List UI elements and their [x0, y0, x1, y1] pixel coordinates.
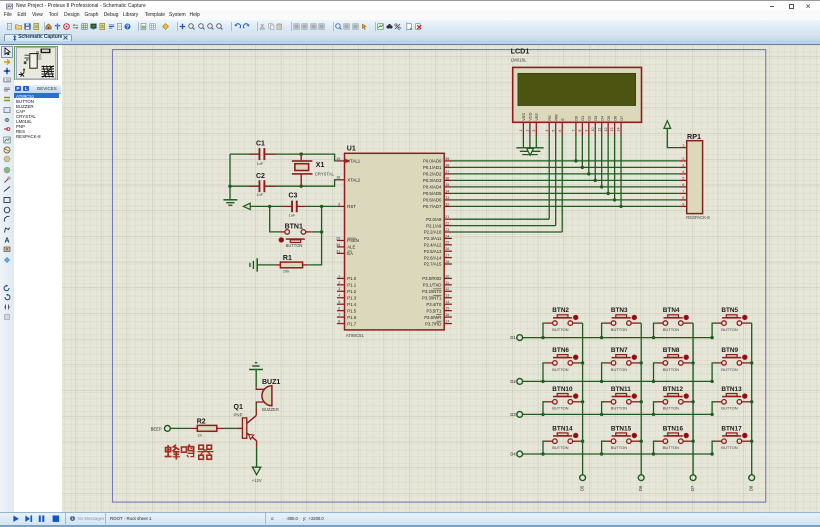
button BTN4	[654, 307, 694, 337]
button BTN1	[279, 223, 312, 248]
crystal X1	[292, 154, 335, 186]
pin 30 ALE	[336, 243, 355, 250]
svg-text:7: 7	[338, 313, 340, 317]
svg-text:BTN10: BTN10	[552, 386, 573, 393]
svg-text:BEEP: BEEP	[151, 426, 162, 431]
svg-text:2: 2	[682, 157, 684, 161]
svg-text:P2.5/A13: P2.5/A13	[424, 249, 442, 254]
svg-text:P2.7/A15: P2.7/A15	[424, 262, 442, 267]
wire LCD D1 drop	[581, 135, 583, 167]
capacitor C2	[249, 173, 276, 197]
svg-text:C2: C2	[256, 173, 265, 180]
svg-text:?: ?	[125, 24, 128, 30]
node D6 terminal	[638, 475, 644, 491]
pin 6 P1.5	[337, 307, 357, 314]
wire row D1	[523, 336, 714, 339]
pin 7 P1.6	[337, 313, 357, 320]
svg-text:P3.3/INT1: P3.3/INT1	[422, 295, 442, 300]
svg-text:P3.5/T1: P3.5/T1	[426, 308, 442, 313]
svg-text:BTN2: BTN2	[552, 307, 569, 314]
pin 29 PSEN	[336, 236, 359, 243]
node D2 terminal	[510, 379, 522, 385]
button BTN13	[712, 386, 752, 415]
wire Q1 collector to buzzer	[256, 402, 264, 415]
pin 3 P1.2	[337, 287, 357, 294]
wire P0.7 row to RP1 pin 9	[452, 205, 679, 208]
svg-text:RS: RS	[547, 115, 552, 121]
LCD LCD1 LM016L	[511, 47, 642, 123]
svg-text:BTN17: BTN17	[721, 425, 742, 432]
svg-text:BUTTON: BUTTON	[552, 445, 568, 450]
svg-text:39: 39	[445, 157, 449, 161]
pin 13 LCD D6	[610, 122, 614, 135]
svg-text:VDD: VDD	[528, 112, 533, 120]
wire LCD D3 drop	[594, 135, 596, 180]
svg-text:D0: D0	[574, 115, 579, 121]
svg-text:33: 33	[445, 196, 449, 200]
svg-text:6: 6	[558, 130, 562, 132]
wire LCD D6 drop	[614, 135, 616, 200]
button BTN2	[543, 307, 583, 337]
svg-text:C3: C3	[288, 193, 297, 200]
button BTN3	[602, 307, 642, 337]
svg-text:AT89C51: AT89C51	[346, 333, 365, 338]
pin 14 LCD D7	[617, 122, 621, 135]
wire R1 row	[258, 264, 276, 266]
wire ground to buzzer top	[256, 370, 264, 389]
button BTN16	[654, 425, 694, 454]
wire P0.2 row to RP1 pin 4	[452, 172, 679, 175]
svg-text:ALE: ALE	[347, 245, 355, 250]
svg-text:11: 11	[597, 128, 601, 132]
pin 25 P2.4/A12	[424, 241, 452, 248]
power (RP1 up arrow)	[664, 121, 671, 129]
svg-text:21: 21	[445, 215, 449, 219]
svg-text:26: 26	[445, 247, 449, 251]
svg-text:1: 1	[338, 274, 340, 278]
svg-text:BTN11: BTN11	[611, 386, 631, 393]
svg-text:BTN3: BTN3	[611, 307, 628, 314]
svg-text:P3.7/RD: P3.7/RD	[425, 321, 441, 326]
wire P0.5 row to RP1 pin 7	[452, 192, 679, 195]
svg-text:7: 7	[682, 189, 684, 193]
pin 24 P2.3/A11	[424, 234, 452, 241]
pin 14 P3.4/T0	[426, 300, 452, 307]
svg-text:D6: D6	[612, 116, 617, 121]
node D7 terminal	[690, 475, 696, 491]
svg-text:29: 29	[336, 236, 340, 240]
svg-text:1nF: 1nF	[257, 192, 264, 197]
wire LCD D2 drop	[588, 135, 590, 174]
svg-text:9: 9	[338, 202, 340, 206]
capacitor C1	[249, 140, 276, 166]
svg-text:D6: D6	[638, 485, 643, 491]
svg-text:38: 38	[445, 163, 449, 167]
wire column D8	[750, 323, 753, 475]
wire LCD D5 drop	[607, 135, 609, 193]
svg-text:D7: D7	[690, 485, 695, 491]
svg-text:P1.5: P1.5	[347, 308, 356, 313]
pin 5 LCD RW	[551, 122, 555, 135]
left vertical toolbar	[0, 45, 15, 513]
wire P0.3 row to RP1 pin 5	[452, 179, 679, 182]
svg-text:D1: D1	[510, 335, 516, 340]
svg-text:D8: D8	[749, 485, 754, 491]
pin 8 LCD D1	[578, 122, 582, 135]
node D5 terminal	[580, 475, 586, 491]
wire column D7	[691, 323, 694, 475]
svg-text:P2.0/A8: P2.0/A8	[426, 217, 442, 222]
node D1 terminal	[510, 335, 522, 341]
pin 32 P0.7/AD7	[423, 202, 452, 209]
svg-text:15: 15	[445, 307, 449, 311]
node D8 terminal	[749, 475, 755, 491]
svg-text:RESPACK-8: RESPACK-8	[686, 215, 710, 220]
svg-text:CRYSTAL: CRYSTAL	[315, 171, 335, 176]
button BTN5	[712, 307, 752, 337]
svg-text:P2.2/A10: P2.2/A10	[424, 230, 442, 235]
button BTN8	[654, 347, 694, 381]
svg-text:35: 35	[445, 183, 449, 187]
pin 11 P3.1/TXD	[423, 281, 452, 288]
svg-text:RW: RW	[553, 114, 558, 121]
svg-text:4: 4	[682, 170, 684, 174]
svg-text:17: 17	[445, 319, 449, 323]
svg-text:P3.4/T0: P3.4/T0	[426, 302, 442, 307]
wire LCD RW drop	[555, 135, 557, 226]
pin 38 P0.1/AD1	[423, 163, 452, 170]
svg-text:D4: D4	[599, 115, 604, 121]
pin 4 LCD RS	[545, 122, 549, 135]
svg-text:D3: D3	[510, 412, 516, 417]
svg-text:6: 6	[338, 307, 340, 311]
svg-text:1nF: 1nF	[257, 161, 264, 166]
svg-text:BTN6: BTN6	[552, 347, 569, 354]
pin 2 LCD VDD	[526, 122, 530, 135]
svg-text:P3.2/INT0: P3.2/INT0	[422, 289, 442, 294]
svg-text:X1: X1	[316, 162, 325, 169]
svg-text:BTN9: BTN9	[721, 347, 738, 354]
svg-text:P0.2/AD2: P0.2/AD2	[423, 172, 442, 177]
svg-text:P3.0/RXD: P3.0/RXD	[422, 276, 441, 281]
wire LCD VSS/VDD/VEE to ground	[523, 135, 536, 148]
button BTN6	[543, 347, 583, 381]
wire XTAL1 net (C1 row to U1 pin 19)	[230, 152, 337, 160]
pin 12 P3.2/INT0	[422, 287, 452, 294]
svg-text:P2.3/A11: P2.3/A11	[424, 236, 442, 241]
svg-text:P1.0: P1.0	[347, 276, 356, 281]
svg-text:D2: D2	[510, 379, 516, 384]
svg-text:PNP: PNP	[234, 413, 243, 418]
pin 1 LCD VSS	[519, 122, 523, 135]
svg-text:23: 23	[445, 228, 449, 232]
svg-text:BUTTON: BUTTON	[611, 327, 627, 332]
svg-text:D5: D5	[606, 116, 611, 121]
svg-text:5: 5	[682, 176, 684, 180]
svg-text:30: 30	[336, 243, 340, 247]
svg-text:PSEN: PSEN	[347, 238, 359, 243]
svg-text:14: 14	[445, 300, 449, 304]
svg-text:XTAL2: XTAL2	[347, 178, 360, 183]
pin 8 P1.7	[337, 319, 357, 326]
pin 21 P2.0/A8	[426, 215, 452, 222]
svg-text:13: 13	[445, 294, 449, 298]
svg-text:BTN13: BTN13	[721, 386, 742, 393]
node label (Chinese text feng-ming-qi)	[165, 444, 214, 459]
svg-text:8: 8	[578, 130, 582, 132]
svg-text:BUTTON: BUTTON	[552, 406, 568, 411]
wire XTAL2 net (C2 row to U1 pin 18)	[228, 180, 337, 188]
svg-text:D7: D7	[619, 116, 624, 121]
svg-text:D1: D1	[580, 116, 585, 121]
svg-text:36: 36	[445, 176, 449, 180]
pin 1 RP1	[679, 144, 687, 148]
svg-text:4: 4	[545, 130, 549, 132]
ground (R1, rotated)	[250, 258, 257, 271]
wire RST net row	[250, 205, 337, 208]
pin 6 LCD E	[558, 122, 562, 135]
svg-text:34: 34	[445, 189, 449, 193]
svg-text:12: 12	[604, 127, 608, 131]
svg-text:LBL: LBL	[4, 78, 10, 82]
pin 2 P1.1	[337, 281, 357, 288]
pin 4 RP1	[679, 170, 687, 174]
wire LCD D7 drop	[620, 135, 622, 206]
svg-text:10: 10	[445, 274, 449, 278]
svg-text:BUZZER: BUZZER	[262, 407, 279, 412]
resistor R1	[275, 255, 307, 274]
svg-text:P3.1/TXD: P3.1/TXD	[423, 283, 442, 288]
toolbar	[0, 20, 820, 35]
svg-text:EA: EA	[347, 251, 353, 256]
svg-text:BUTTON: BUTTON	[721, 445, 737, 450]
pin 1 P1.0	[337, 274, 357, 281]
svg-text:2: 2	[338, 281, 340, 285]
svg-text:BTN5: BTN5	[721, 307, 738, 314]
svg-text:10: 10	[591, 127, 595, 131]
svg-text:D4: D4	[510, 452, 516, 457]
svg-text:XTAL1: XTAL1	[347, 159, 360, 164]
pin 12 LCD D5	[604, 122, 608, 135]
pin 35 P0.4/AD4	[423, 183, 452, 190]
power (VDD down arrow)	[527, 148, 534, 155]
svg-text:P1.1: P1.1	[347, 283, 356, 288]
button BTN15	[602, 425, 642, 454]
svg-text:P1.4: P1.4	[347, 302, 356, 307]
status bar	[0, 512, 820, 527]
wire row D4	[523, 452, 714, 455]
wire P0.1 row to RP1 pin 3	[452, 166, 679, 169]
resistor pack RP1 RESPACK-8	[686, 132, 710, 220]
pin 39 P0.0/AD0	[423, 157, 452, 164]
pin 15 P3.5/T1	[426, 307, 452, 314]
svg-text:BTN15: BTN15	[611, 425, 632, 432]
pin 13 P3.3/INT1	[422, 294, 452, 301]
svg-text:BTN16: BTN16	[663, 425, 684, 432]
pin 9 RST	[337, 202, 356, 209]
pin 10 P3.0/RXD	[422, 274, 452, 281]
IC U1 AT89C51	[345, 146, 445, 338]
pin 11 LCD D4	[597, 122, 601, 135]
svg-text:25: 25	[445, 241, 449, 245]
svg-text:3: 3	[338, 287, 340, 291]
svg-text:1K: 1K	[197, 433, 202, 438]
power terminal (RST row, left arrow)	[243, 203, 250, 209]
svg-text:BUTTON: BUTTON	[611, 445, 627, 450]
pin 8 RP1	[679, 196, 687, 200]
svg-text:Q1: Q1	[234, 404, 243, 411]
svg-text:14: 14	[617, 127, 621, 131]
svg-text:BUTTON: BUTTON	[663, 367, 679, 372]
svg-text:32: 32	[445, 202, 449, 206]
wire BTN1 left branch	[270, 206, 280, 232]
ground (under LCD)	[516, 148, 543, 155]
pin 34 P0.5/AD5	[423, 189, 452, 196]
svg-text:BUTTON: BUTTON	[286, 243, 303, 248]
wire BEEP to R2 to Q1 base	[170, 427, 236, 429]
svg-text:P0.4/AD4: P0.4/AD4	[423, 185, 442, 190]
wire LCD D4 drop	[601, 135, 603, 187]
svg-text:BUTTON: BUTTON	[721, 367, 737, 372]
pin 36 P0.3/AD3	[423, 176, 452, 183]
button BTN9	[712, 347, 752, 381]
button BTN12	[654, 386, 694, 415]
svg-text:10k: 10k	[283, 268, 289, 273]
svg-text:P1.3: P1.3	[347, 295, 356, 300]
tab bar	[0, 33, 820, 41]
svg-text:8: 8	[338, 319, 340, 323]
button BTN17	[712, 425, 752, 454]
wire P2.2 row to LCD	[452, 231, 562, 233]
svg-text:RP1: RP1	[687, 132, 701, 141]
svg-text:D3: D3	[593, 116, 598, 121]
svg-text:19: 19	[336, 157, 340, 161]
svg-text:18: 18	[336, 176, 340, 180]
pin 26 P2.5/A13	[424, 247, 452, 254]
svg-text:6: 6	[682, 183, 684, 187]
buzzer BUZ1	[262, 379, 280, 412]
pin 16 P3.6/WR	[424, 313, 452, 320]
pin 9 RP1	[679, 202, 687, 206]
pin 19 XTAL1	[336, 157, 361, 164]
svg-text:4: 4	[338, 294, 340, 298]
svg-text:BTN4: BTN4	[663, 307, 680, 314]
svg-text:13: 13	[610, 127, 614, 131]
svg-text:11: 11	[445, 281, 449, 285]
svg-text:BUTTON: BUTTON	[663, 406, 679, 411]
svg-text:8: 8	[682, 196, 684, 200]
wire P0.6 row to RP1 pin 8	[452, 198, 679, 201]
svg-text:3: 3	[682, 163, 684, 167]
svg-text:31: 31	[336, 249, 340, 253]
ground (above buzzer)	[249, 363, 263, 370]
wire LCD E drop	[561, 135, 563, 232]
pin 31 EA	[336, 249, 353, 256]
pin 5 RP1	[679, 176, 687, 180]
svg-text:16: 16	[445, 313, 449, 317]
svg-text:R1: R1	[283, 255, 292, 262]
wire row D3	[523, 413, 714, 416]
svg-text:P2.6/A14: P2.6/A14	[424, 255, 442, 260]
svg-text:28: 28	[445, 260, 449, 264]
left panel	[14, 45, 64, 513]
pin 7 LCD D0	[572, 122, 576, 135]
button BTN7	[602, 347, 642, 381]
pin 33 P0.6/AD6	[423, 196, 452, 203]
wire row D2	[523, 380, 714, 383]
svg-text:BUTTON: BUTTON	[611, 406, 627, 411]
pin 10 LCD D3	[591, 122, 595, 135]
svg-text:D5: D5	[580, 485, 585, 491]
svg-text:+12V: +12V	[252, 478, 262, 483]
transistor Q1 PNP	[234, 404, 257, 441]
svg-text:1: 1	[682, 144, 684, 148]
svg-text:BUTTON: BUTTON	[552, 327, 568, 332]
svg-text:22: 22	[445, 222, 449, 226]
svg-text:R2: R2	[197, 418, 206, 425]
pin 27 P2.6/A14	[424, 254, 452, 261]
svg-text:24: 24	[445, 234, 449, 238]
svg-text:VEE: VEE	[534, 113, 539, 121]
svg-text:12: 12	[445, 287, 449, 291]
svg-text:C1: C1	[256, 140, 265, 147]
pin 2 RP1	[679, 157, 687, 161]
svg-text:BUTTON: BUTTON	[721, 327, 737, 332]
svg-text:9: 9	[682, 202, 684, 206]
svg-text:BUZ1: BUZ1	[262, 379, 280, 386]
capacitor C3	[284, 193, 306, 218]
svg-text:P0.5/AD5: P0.5/AD5	[423, 191, 442, 196]
node D3 terminal	[510, 412, 522, 418]
wire P0.4 row to RP1 pin 6	[452, 185, 679, 188]
pin 7 RP1	[679, 189, 687, 193]
svg-text:P0.6/AD6: P0.6/AD6	[423, 198, 442, 203]
resistor R2	[190, 418, 224, 437]
svg-text:P3.6/WR: P3.6/WR	[424, 315, 441, 320]
wire RP1 pin1 to power	[667, 129, 679, 148]
svg-text:P1.6: P1.6	[347, 315, 356, 320]
svg-text:BTN7: BTN7	[611, 347, 628, 354]
svg-text:RST: RST	[347, 204, 356, 209]
svg-text:BUTTON: BUTTON	[611, 367, 627, 372]
wire P2.0 row to LCD	[452, 218, 549, 220]
pin 3 RP1	[679, 163, 687, 167]
pin 5 P1.4	[337, 300, 357, 307]
svg-text:9: 9	[584, 130, 588, 132]
svg-text:E: E	[560, 118, 565, 121]
svg-text:BUTTON: BUTTON	[721, 406, 737, 411]
button BTN11	[602, 386, 642, 415]
svg-text:LM016L: LM016L	[511, 58, 527, 63]
svg-text:BTN14: BTN14	[552, 425, 573, 432]
pin 28 P2.7/A15	[424, 260, 452, 267]
svg-text:3: 3	[532, 130, 536, 132]
svg-text:27: 27	[445, 254, 449, 258]
wire column D5	[581, 323, 584, 475]
svg-text:P0.3/AD3: P0.3/AD3	[423, 178, 442, 183]
svg-text:BUTTON: BUTTON	[552, 367, 568, 372]
wire LCD D0 drop	[575, 135, 577, 161]
svg-text:37: 37	[445, 170, 449, 174]
title bar	[0, 0, 820, 12]
svg-text:P1.2: P1.2	[347, 289, 356, 294]
svg-text:7: 7	[572, 130, 576, 132]
wire column D6	[640, 323, 643, 475]
pin 3 LCD VEE	[532, 122, 536, 135]
svg-text:P0.7/AD7: P0.7/AD7	[423, 204, 442, 209]
svg-text:BUTTON: BUTTON	[663, 327, 679, 332]
wire Q1 emitter to +12V	[256, 441, 258, 467]
